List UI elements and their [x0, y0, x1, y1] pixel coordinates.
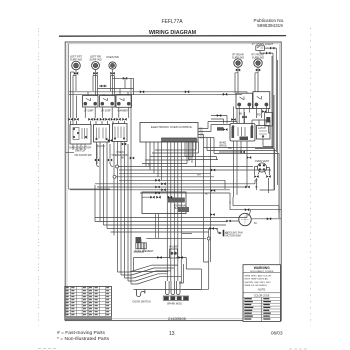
infinite switch right-front: [253, 92, 270, 109]
infinite switch right-rear: [236, 93, 253, 108]
EOC right pin labels: [200, 128, 204, 140]
surface indicator lamp right-rear label: [232, 53, 244, 60]
wire bus B: [69, 93, 242, 95]
splice cluster on ladder: [155, 90, 249, 198]
splice right switch leads: [239, 110, 267, 116]
thermal fuse label: [226, 232, 243, 238]
wires terminal block to igniter: [156, 214, 159, 239]
surface indicator lamp left-front label: [70, 55, 83, 62]
oven thermostat switch: [113, 124, 128, 142]
svg-text:WIRING DIAGRAM: WIRING DIAGRAM: [149, 30, 197, 36]
svg-text:RLY: RLY: [228, 147, 233, 150]
svg-text:08/03: 08/03: [271, 331, 283, 336]
node open circle junction A: [116, 165, 119, 168]
svg-text:13: 13: [169, 331, 175, 337]
infinite switch left-rear: [100, 96, 116, 108]
clock label: [97, 145, 106, 148]
splice near latch: [247, 156, 251, 159]
wires cooling fan leads: [230, 197, 282, 219]
splice cooling fan lead: [226, 220, 230, 223]
bake element label: [135, 250, 155, 253]
splice right of thermostat: [121, 157, 134, 160]
wires EOC connector drops right: [185, 142, 218, 167]
heading WIRING DIAGRAM: [149, 30, 197, 36]
terminal block box: [142, 192, 189, 214]
electronic oven control EOC: [140, 123, 198, 143]
page bottom scan artifacts: [38, 348, 309, 350]
svg-text:# = Fast-moving Parts: # = Fast-moving Parts: [57, 330, 106, 336]
splice between lamps: [99, 85, 107, 88]
wires fan motor leads: [258, 172, 266, 175]
latch motor box: [257, 126, 271, 140]
wires fan motor loop: [255, 167, 270, 194]
oven light switch box: [256, 46, 265, 51]
wire bake element return: [134, 234, 207, 253]
svg-text:WARNING: WARNING: [254, 266, 270, 270]
wire lamp L1 drop: [75, 70, 77, 91]
surface indicator lamp right-rear: [234, 59, 242, 67]
revision date 08/03: [271, 331, 283, 336]
cooling fan motor: [239, 213, 251, 225]
wire diagonal harness bundle: [118, 265, 182, 284]
oven vent fan motor: [257, 163, 266, 172]
schematic outer border: [59, 36, 286, 321]
surface indicator lamp left-front: [72, 61, 81, 70]
EOC connector comb: [162, 138, 197, 143]
wire oven lamp branch: [111, 76, 115, 92]
bake element: [136, 243, 147, 249]
wires EOC connector drops long: [167, 142, 181, 284]
svg-text:21639505: 21639505: [168, 316, 187, 321]
wires EOC to right bus: [204, 148, 280, 163]
splice at lock wire: [266, 52, 270, 55]
surface indicator lamp left-rear: [92, 62, 100, 70]
wire ladder run 1: [119, 166, 254, 168]
wires right switch drops: [239, 106, 266, 123]
splice fan lead 1: [254, 175, 258, 178]
wires switch row to selector row: [71, 96, 129, 125]
oven door switch plunger: [137, 290, 145, 297]
node open circle junction: [207, 237, 210, 240]
wire right edge bus long: [269, 95, 275, 190]
svg-text:WIRE SPEC. AND COLOR: WIRE SPEC. AND COLOR: [245, 275, 272, 278]
splice at lamp L1 lead: [74, 72, 78, 75]
hi-limit thermostat: [170, 249, 178, 258]
splice right of terminal block: [210, 213, 214, 216]
right margin perforation dotted line: [310, 28, 312, 326]
infinite switch left-front: [83, 96, 99, 108]
bottom harness connector body: [163, 296, 189, 300]
wires EOC right pins: [198, 122, 237, 263]
wire selector drops to lower bundle: [97, 96, 132, 285]
warning box color table: [243, 297, 281, 321]
footer fast-moving parts note: [57, 330, 110, 342]
wire ladder run 3: [119, 172, 211, 174]
splice cooling fan lead 2: [267, 217, 271, 220]
wire splice bus to switches: [113, 78, 134, 91]
svg-text:SWITCH: SWITCH: [75, 149, 85, 153]
wire ladder run 5: [119, 180, 225, 189]
svg-text:WITH TEMP LIMITS AS: WITH TEMP LIMITS AS: [245, 277, 269, 280]
wire right-rear lamp drop: [235, 67, 238, 93]
wire ladder run 7: [97, 186, 247, 188]
wire right side verticals bottom: [179, 262, 209, 289]
title FEFL77A: [161, 19, 183, 25]
svg-text:OVEN IND: OVEN IND: [106, 55, 119, 59]
splice cooling fan top: [245, 208, 249, 211]
surface indicator lamp left-rear label: [89, 55, 101, 62]
inner console boundary line: [69, 44, 110, 189]
oven door switch label: [133, 301, 151, 304]
bottom harness connector label: [167, 303, 182, 306]
oven door latch label: [74, 153, 92, 157]
svg-text:DOOR SWITCH: DOOR SWITCH: [133, 301, 151, 304]
svg-text:ON DOOR SW: ON DOOR SW: [74, 153, 92, 157]
svg-text:BROIL: BROIL: [220, 144, 228, 147]
wire oven lamp drop: [112, 69, 114, 95]
wire lamp L1 return: [71, 72, 77, 96]
splice right-front lamp lead: [256, 69, 260, 72]
wire selector stub left: [66, 152, 74, 154]
wire long bottom runs: [95, 185, 247, 233]
oven indicator lamp: [109, 62, 116, 69]
wire right-front lamp drop: [255, 67, 258, 92]
oven selector bottom stubs: [73, 144, 85, 150]
splice at oven lamp lead: [110, 72, 114, 75]
bottom harness connector loops: [166, 281, 181, 295]
splice row under switches: [68, 118, 126, 121]
wire lamp L2 return: [93, 76, 98, 92]
oven thermostat label: [111, 150, 129, 157]
hi-limit thermostat label: [169, 246, 179, 249]
splice at lamp L2 lead: [93, 72, 97, 75]
oven light switch note: [252, 42, 273, 46]
wire lamp L2 drop: [95, 69, 97, 95]
wire oven light to right bus: [264, 48, 276, 152]
schematic part number 21639505: [168, 316, 187, 321]
wire gauge labels: [148, 165, 258, 196]
oven indicator lamp label: [106, 55, 119, 59]
svg-text:SHOWN. USE ONLY 105C: SHOWN. USE ONLY 105C: [245, 282, 272, 284]
wires into relay from left: [211, 114, 227, 123]
spark module blob: [136, 237, 142, 243]
oven door light switch: [265, 113, 273, 127]
svg-text:SURF IND: SURF IND: [70, 57, 82, 61]
bake broil relay label: [220, 142, 234, 151]
wires comb to left runs: [142, 142, 199, 164]
wire upper bus segment: [98, 89, 134, 96]
left margin perforation dotted line: [38, 28, 40, 326]
wire lock to right bus: [260, 50, 273, 148]
wires latch drops: [219, 120, 273, 154]
svg-text:BK: BK: [121, 158, 125, 160]
oven selector switch: [70, 125, 91, 145]
svg-text:ELECTRONIC OVEN CONTROL: ELECTRONIC OVEN CONTROL: [151, 125, 193, 129]
wires EOC connector drops left: [146, 142, 162, 180]
wire ladder run 6: [95, 180, 258, 184]
svg-text:RD: RD: [257, 114, 261, 117]
wiring legend table text specks: [66, 287, 109, 315]
svg-text:WIRE. EX: BK14 AWG: WIRE. EX: BK14 AWG: [245, 284, 267, 287]
svg-text:HI LIMIT: HI LIMIT: [169, 246, 179, 249]
wire oven circuit loop: [131, 256, 202, 289]
splice pair selector outputs: [95, 159, 112, 162]
wire ladder run 2: [119, 169, 271, 171]
svg-text:FEFL77A: FEFL77A: [161, 19, 183, 25]
splice on bus B right: [223, 93, 227, 96]
svg-text:* = Non-Illustrated Parts: * = Non-Illustrated Parts: [57, 336, 110, 342]
oven vent fan motor label: [255, 160, 270, 163]
svg-text:WH: WH: [197, 175, 201, 177]
wire bake feed with splice: [134, 256, 170, 259]
node open circle junction B: [113, 175, 116, 178]
svg-text:MOTOR ASM: MOTOR ASM: [226, 234, 241, 237]
svg-text:-NOTE-: -NOTE-: [257, 289, 266, 292]
left switch labels: [84, 109, 128, 112]
wire bus risers: [73, 89, 134, 125]
svg-text:# * OVEN LIGHT: # * OVEN LIGHT: [252, 42, 273, 46]
bake broil relay box: [230, 124, 255, 142]
cooling fan motor label: [254, 221, 257, 225]
EOC pin connector label: [217, 127, 228, 131]
splice fan lead 2: [266, 175, 270, 178]
svg-text:RD: RD: [205, 194, 209, 196]
clock relay switch: [94, 125, 110, 143]
wire bus A: [69, 90, 247, 93]
wire ladder run 8: [70, 190, 230, 204]
warning information box: [243, 265, 281, 322]
svg-text:LATCH: LATCH: [258, 127, 266, 130]
wire vertical mid-right: [204, 148, 214, 263]
svg-text:BK: BK: [239, 113, 243, 116]
page number 13: [169, 331, 175, 337]
infinite switch aux: [116, 95, 132, 107]
svg-text:SURF IND: SURF IND: [89, 57, 101, 61]
splice right of oven lamp: [123, 77, 127, 80]
splice near thermostat bottom: [108, 139, 126, 145]
thermal fuse bar: [218, 230, 228, 237]
publication number: [254, 18, 285, 28]
wiring legend table: [65, 286, 112, 319]
surface indicator lamp right-front: [254, 59, 262, 67]
splice right-rear lamp lead: [236, 69, 240, 72]
wires relay drops: [231, 107, 247, 198]
svg-text:5995394319: 5995394319: [257, 23, 283, 28]
surface indicator lamp right-front label: [251, 53, 264, 60]
svg-text:CLOCK: CLOCK: [97, 145, 106, 148]
svg-text:WH: WH: [200, 137, 204, 140]
oven selector label: [69, 146, 91, 153]
wire ladder run 4: [116, 176, 214, 178]
svg-text:SPARK MOD: SPARK MOD: [167, 303, 182, 306]
splice at oven light wire: [270, 47, 274, 50]
wire right border bus: [252, 56, 279, 218]
